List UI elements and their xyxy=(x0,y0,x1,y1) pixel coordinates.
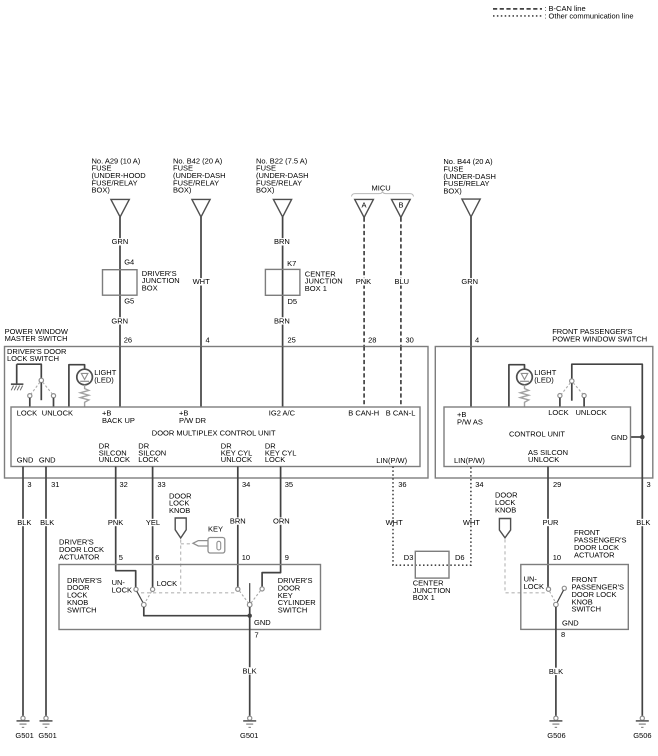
power window master switch box xyxy=(5,347,429,479)
svg-text:7: 7 xyxy=(255,631,259,640)
svg-text:33: 33 xyxy=(157,480,165,489)
UN-LOCK contact label xyxy=(112,578,132,594)
wire color BRN (upper) xyxy=(273,238,289,245)
MICU connector B triangle xyxy=(392,199,411,217)
MICU brace xyxy=(352,191,414,196)
svg-text:PNK: PNK xyxy=(356,277,371,286)
wire DR SILCON UNLOCK pin32 to actuator pin5 xyxy=(116,467,136,588)
driver's door lock switch label xyxy=(7,347,67,363)
knob switch arm xyxy=(137,591,143,603)
wire color BLK (pin 3) xyxy=(16,519,31,526)
svg-text:BOX 1: BOX 1 xyxy=(413,593,435,602)
svg-text:31: 31 xyxy=(51,480,59,489)
wire color WHT (pin 34 right) xyxy=(462,519,480,526)
DR KEY CYL LOCK pin label xyxy=(265,442,297,465)
svg-text:G501: G501 xyxy=(15,731,33,740)
svg-text:GRN: GRN xyxy=(111,316,128,325)
door lock switch dashed throw left xyxy=(31,382,40,394)
svg-text:CONTROL UNIT: CONTROL UNIT xyxy=(509,429,565,438)
front passenger's door lock knob switch label xyxy=(572,575,625,614)
wire GND pin31 to G501 xyxy=(45,467,47,717)
fuse No.B22 label xyxy=(256,156,309,194)
wire fuse B22 to master switch pin 25 xyxy=(282,217,284,347)
svg-text:35: 35 xyxy=(285,480,293,489)
door lock knob symbol (left) xyxy=(175,518,186,538)
fuse No.A29 connector triangle xyxy=(111,199,129,217)
svg-text:KNOB: KNOB xyxy=(169,506,190,515)
passenger lock switch dashed throw right xyxy=(573,383,583,394)
svg-text:: Other communication line: : Other communication line xyxy=(544,12,633,21)
svg-text:WHT: WHT xyxy=(193,277,210,286)
wire LED branch right (left leg) xyxy=(509,365,525,407)
driver's door lock actuator label xyxy=(59,538,104,562)
svg-text:BOX): BOX) xyxy=(443,186,462,195)
svg-text:LOCK SWITCH: LOCK SWITCH xyxy=(7,354,59,363)
svg-text:BOX): BOX) xyxy=(256,186,275,195)
wire AS SILCON UNLOCK pin29 to passenger actuator pin10 xyxy=(547,467,549,588)
svg-text:G506: G506 xyxy=(547,731,565,740)
knob switch pivot xyxy=(142,602,147,607)
wire B-CAN-L dashed from MICU B to pin 30 xyxy=(400,218,402,347)
MICU connector A triangle xyxy=(355,199,374,217)
svg-text:29: 29 xyxy=(553,480,561,489)
svg-text:UNLOCK: UNLOCK xyxy=(42,409,73,418)
LED L1 cathode bar xyxy=(80,380,89,382)
knob switch dashed alt throw xyxy=(146,591,152,601)
wire pin4 to +B P/W AS xyxy=(470,347,472,408)
svg-text:UNLOCK: UNLOCK xyxy=(221,455,252,464)
LIGHT (LED) label right xyxy=(534,368,557,384)
wire color WHT (pin 36) xyxy=(385,519,403,526)
svg-text:GND: GND xyxy=(254,618,271,627)
passenger knob switch UNLOCK contact xyxy=(546,587,550,591)
svg-text:G5: G5 xyxy=(124,296,134,305)
svg-text:BLK: BLK xyxy=(636,518,650,527)
door lock switch LOCK contact xyxy=(28,394,32,398)
knob switch LOCK contact xyxy=(151,587,155,591)
key cylinder switch UNLOCK contact xyxy=(236,587,240,591)
svg-text:SWITCH: SWITCH xyxy=(67,605,97,614)
svg-text:32: 32 xyxy=(120,480,128,489)
wire color WHT xyxy=(192,278,210,285)
UN-LOCK contact label (right) xyxy=(524,574,544,590)
LED L1 diode triangle xyxy=(81,373,88,379)
svg-text:(LED): (LED) xyxy=(534,376,554,385)
key cyl dashed throw right xyxy=(251,591,260,603)
wire passenger LOCK stub xyxy=(559,398,561,407)
svg-text:GND: GND xyxy=(17,455,34,464)
passenger knob switch arm xyxy=(557,590,564,603)
svg-text:BLK: BLK xyxy=(40,518,54,527)
door lock knob label (left) xyxy=(169,491,192,515)
svg-text:LIN(P/W): LIN(P/W) xyxy=(376,456,407,465)
wire pin25 to IG2 A/C xyxy=(282,347,284,408)
wire LED branch (left leg) xyxy=(69,365,85,407)
wire passenger UNLOCK stub xyxy=(583,398,585,407)
LED L2 diode triangle xyxy=(521,373,528,379)
svg-text:10: 10 xyxy=(553,553,561,562)
fuse No.A29 label xyxy=(92,156,147,194)
svg-text:BLK: BLK xyxy=(243,666,257,675)
svg-text:B CAN-L: B CAN-L xyxy=(386,409,416,418)
svg-text:BOX 1: BOX 1 xyxy=(305,284,327,293)
svg-text:LOCK: LOCK xyxy=(112,586,132,595)
svg-text:ORN: ORN xyxy=(273,517,290,526)
svg-text:GND: GND xyxy=(611,433,628,442)
wire LOCK contact stub xyxy=(29,398,31,407)
svg-text:(LED): (LED) xyxy=(94,376,114,385)
svg-text:10: 10 xyxy=(242,553,250,562)
svg-text:BRN: BRN xyxy=(230,517,246,526)
door lock switch arm xyxy=(40,383,42,401)
wire color BLK (pin 31) xyxy=(39,519,54,526)
+B P/W AS pin label xyxy=(457,410,483,426)
svg-text:P/W AS: P/W AS xyxy=(457,417,483,426)
passenger knob switch pivot xyxy=(554,602,559,607)
svg-text:25: 25 xyxy=(288,336,296,345)
driver's junction box xyxy=(103,270,138,296)
svg-text:GND: GND xyxy=(562,619,579,628)
wire fuse B42 to master switch pin 4 xyxy=(200,217,202,347)
wire DR KEY CYL LOCK pin35 to actuator pin9 xyxy=(262,467,281,587)
svg-text:LOCK: LOCK xyxy=(548,408,568,417)
svg-text:PNK: PNK xyxy=(108,518,123,527)
svg-text:BRN: BRN xyxy=(274,316,290,325)
driver's door key cylinder switch label xyxy=(278,576,317,615)
svg-text:D5: D5 xyxy=(288,297,298,306)
svg-text:MICU: MICU xyxy=(372,184,391,193)
resistor R (LED series, right) xyxy=(520,385,529,407)
wire color GRN (lower) xyxy=(111,317,128,324)
+B P/W DR pin label xyxy=(179,409,207,425)
ground G506 (pin 8) xyxy=(547,716,565,740)
DR SILCON UNLOCK pin label xyxy=(99,442,130,465)
svg-text:LOCK: LOCK xyxy=(17,409,37,418)
svg-text:G501: G501 xyxy=(240,731,258,740)
resistor R (LED series) xyxy=(80,385,89,407)
wire knob switch common to junction xyxy=(144,607,250,616)
key cylinder switch pivot xyxy=(247,602,252,607)
driver's door lock knob switch label xyxy=(67,576,102,615)
svg-text:5: 5 xyxy=(119,553,123,562)
key symbol xyxy=(193,538,225,554)
wire color BLU xyxy=(394,278,409,285)
svg-text:ACTUATOR: ACTUATOR xyxy=(574,550,615,559)
svg-text:D6: D6 xyxy=(455,553,465,562)
ground G501 (pin 31) xyxy=(38,716,56,740)
LED L1 circle xyxy=(77,369,93,385)
svg-text:DOOR MULTIPLEX CONTROL UNIT: DOOR MULTIPLEX CONTROL UNIT xyxy=(152,429,276,438)
svg-text:B CAN-H: B CAN-H xyxy=(348,409,379,418)
wire color GRN (upper) xyxy=(111,238,128,245)
fuse No.B44 label xyxy=(443,157,496,195)
svg-text:K7: K7 xyxy=(287,259,296,268)
passenger lock switch dashed throw left xyxy=(562,383,571,394)
control unit box (passenger) xyxy=(444,407,631,467)
svg-text:BLK: BLK xyxy=(17,518,31,527)
svg-text:4: 4 xyxy=(475,336,479,345)
wire color PNK xyxy=(107,519,123,526)
svg-text:LOCK: LOCK xyxy=(524,582,544,591)
mechanical linkage dashed (knob to key cyl switch) xyxy=(141,592,236,594)
passenger UNLOCK contact xyxy=(582,394,586,398)
wire color PUR xyxy=(542,519,558,526)
svg-text:BLU: BLU xyxy=(395,277,410,286)
fuse No.B42 label xyxy=(173,156,226,194)
passenger knob switch dashed alt throw xyxy=(550,591,555,601)
svg-text:LOCK: LOCK xyxy=(138,455,158,464)
svg-text:36: 36 xyxy=(398,480,406,489)
svg-text:BOX): BOX) xyxy=(173,186,192,195)
svg-text:4: 4 xyxy=(206,336,210,345)
+B BACK UP pin label xyxy=(102,409,135,425)
LED L2 circle xyxy=(517,369,533,385)
wire UNLOCK contact stub xyxy=(53,398,55,407)
ground G501 (pin 3) xyxy=(15,716,33,740)
passenger lock switch pivot xyxy=(570,379,574,383)
svg-text:D3: D3 xyxy=(404,553,414,562)
key cylinder switch arm xyxy=(249,583,251,602)
svg-text:UNLOCK: UNLOCK xyxy=(576,408,607,417)
door lock switch dashed throw right xyxy=(43,382,53,394)
fuse No.B22 connector triangle xyxy=(273,199,291,217)
svg-text:MASTER SWITCH: MASTER SWITCH xyxy=(5,334,68,343)
wire passenger knob switch common to GND pin8 xyxy=(555,607,557,630)
knob linkage dashed (left) xyxy=(180,540,182,593)
wire color BLK (pin 8) xyxy=(548,668,563,675)
fuse No.B42 connector triangle xyxy=(192,199,210,217)
svg-text:POWER WINDOW SWITCH: POWER WINDOW SWITCH xyxy=(552,334,647,343)
svg-text:G501: G501 xyxy=(38,731,56,740)
svg-text:SWITCH: SWITCH xyxy=(278,606,308,615)
wire B-CAN-L inside box xyxy=(400,347,402,408)
DR KEY CYL UNLOCK pin label xyxy=(221,442,253,465)
ground G501 (pin 7) xyxy=(240,716,258,740)
svg-text:28: 28 xyxy=(368,336,376,345)
front passenger's door lock actuator label xyxy=(574,528,627,559)
svg-text:ACTUATOR: ACTUATOR xyxy=(59,552,100,561)
wire pin4 to +B P/W DR xyxy=(200,347,202,408)
wire B-CAN-H dashed from MICU A to pin 28 xyxy=(363,218,365,347)
wire fuse B44 to passenger switch pin 4 xyxy=(470,217,472,347)
wire color YEL xyxy=(145,519,159,526)
chassis ground (door lock switch) xyxy=(11,364,24,390)
wire color GRN (right) xyxy=(461,278,478,285)
wire color PNK xyxy=(355,278,371,285)
svg-text:A: A xyxy=(362,200,367,209)
svg-text:6: 6 xyxy=(155,553,159,562)
svg-text:LOCK: LOCK xyxy=(265,455,285,464)
passenger LOCK contact xyxy=(558,394,562,398)
door lock knob label (right) xyxy=(495,491,518,515)
svg-text:UNLOCK: UNLOCK xyxy=(528,455,559,464)
wire LIN dotted pin36 to D3 and D6 to pin34 xyxy=(393,467,471,566)
svg-text:LIN(P/W): LIN(P/W) xyxy=(454,456,485,465)
door lock switch UNLOCK contact xyxy=(51,394,55,398)
svg-text:GRN: GRN xyxy=(112,237,129,246)
svg-text:WHT: WHT xyxy=(386,518,403,527)
center junction box 1 (top) xyxy=(265,269,300,295)
svg-text:34: 34 xyxy=(242,480,250,489)
legend B-CAN dashed sample xyxy=(493,8,542,10)
LED L2 cathode bar xyxy=(520,380,529,382)
GND junction dot right xyxy=(640,435,645,440)
wire pin7 to G501 xyxy=(249,630,251,717)
wire GND stub right control unit xyxy=(631,436,643,438)
svg-text:SWITCH: SWITCH xyxy=(572,605,602,614)
wire door lock switch top xyxy=(17,364,42,378)
svg-text:3: 3 xyxy=(647,480,651,489)
key linkage dashed xyxy=(181,543,192,545)
svg-text:GND: GND xyxy=(39,455,56,464)
svg-text:8: 8 xyxy=(561,630,565,639)
knob switch UNLOCK contact xyxy=(134,587,138,591)
legend other-communication dotted sample xyxy=(493,15,542,17)
svg-text:B: B xyxy=(399,200,404,209)
power window master switch label xyxy=(5,327,69,343)
svg-text:IG2 A/C: IG2 A/C xyxy=(269,409,296,418)
svg-text:PUR: PUR xyxy=(543,518,559,527)
wire color BRN xyxy=(229,517,245,524)
svg-text:G506: G506 xyxy=(633,731,651,740)
wire color BLK (right) xyxy=(635,519,650,526)
AS SILCON UNLOCK pin label xyxy=(528,448,568,464)
wire passenger lock switch top to GND rail xyxy=(572,364,643,478)
door lock knob symbol (right) xyxy=(499,519,510,538)
wire fuse A29 to master switch pin 26 xyxy=(119,217,121,347)
wire pin26 to +B BACK UP xyxy=(119,347,121,408)
svg-text:BOX: BOX xyxy=(142,284,158,293)
wire color BRN (lower) xyxy=(273,317,289,324)
passenger lock switch arm xyxy=(571,383,573,400)
center junction box 1 label xyxy=(413,579,451,603)
svg-text:34: 34 xyxy=(475,480,483,489)
svg-text:9: 9 xyxy=(285,553,289,562)
driver's door lock actuator box xyxy=(59,565,321,630)
knob linkage dashed (right) xyxy=(505,539,546,593)
key cyl dashed throw left xyxy=(239,591,248,603)
svg-text:LOCK: LOCK xyxy=(157,579,177,588)
svg-text:26: 26 xyxy=(124,336,132,345)
front passenger's power window switch box xyxy=(435,347,653,479)
svg-text:30: 30 xyxy=(406,336,414,345)
svg-text:BRN: BRN xyxy=(274,237,290,246)
wire B-CAN-H inside box xyxy=(363,347,365,408)
svg-text:GRN: GRN xyxy=(461,277,478,286)
wire color BLK (pin 7) xyxy=(242,667,257,674)
svg-text:G4: G4 xyxy=(124,257,134,266)
wire DR KEY CYL UNLOCK pin34 to actuator pin10 xyxy=(237,467,239,588)
junction dot actuator common xyxy=(248,614,252,618)
LIGHT (LED) label xyxy=(94,368,117,384)
door multiplex control unit box xyxy=(11,407,420,467)
svg-text:UNLOCK: UNLOCK xyxy=(99,455,130,464)
svg-text:YEL: YEL xyxy=(146,518,160,527)
svg-text:KEY: KEY xyxy=(208,525,223,534)
key cylinder switch LOCK contact xyxy=(260,587,264,591)
wire pin8 to G506 xyxy=(555,629,557,716)
wire DR SILCON LOCK pin33 to actuator pin6 xyxy=(152,467,154,588)
svg-text:P/W DR: P/W DR xyxy=(179,416,207,425)
wire color ORN xyxy=(272,517,289,524)
svg-text:KNOB: KNOB xyxy=(495,505,516,514)
front passenger's power window switch label xyxy=(552,327,647,343)
svg-text:BACK UP: BACK UP xyxy=(102,416,135,425)
door lock switch pivot xyxy=(39,378,43,382)
svg-text:3: 3 xyxy=(27,480,31,489)
svg-text:BLK: BLK xyxy=(549,667,563,676)
wire key cyl common to GND pin7 xyxy=(249,607,251,630)
ground G506 (pin 3 right) xyxy=(633,716,651,740)
passenger knob switch floating contact xyxy=(562,586,566,590)
wire GND pin3 to G501 xyxy=(22,467,24,717)
front passenger's door lock actuator box xyxy=(521,565,629,630)
svg-text:BOX): BOX) xyxy=(92,186,111,195)
fuse No.B44 connector triangle xyxy=(462,199,480,217)
DR SILCON LOCK pin label xyxy=(138,442,166,465)
wire GND pin3 right to G506 xyxy=(641,478,643,716)
center junction box 1 (bottom) xyxy=(415,551,449,578)
